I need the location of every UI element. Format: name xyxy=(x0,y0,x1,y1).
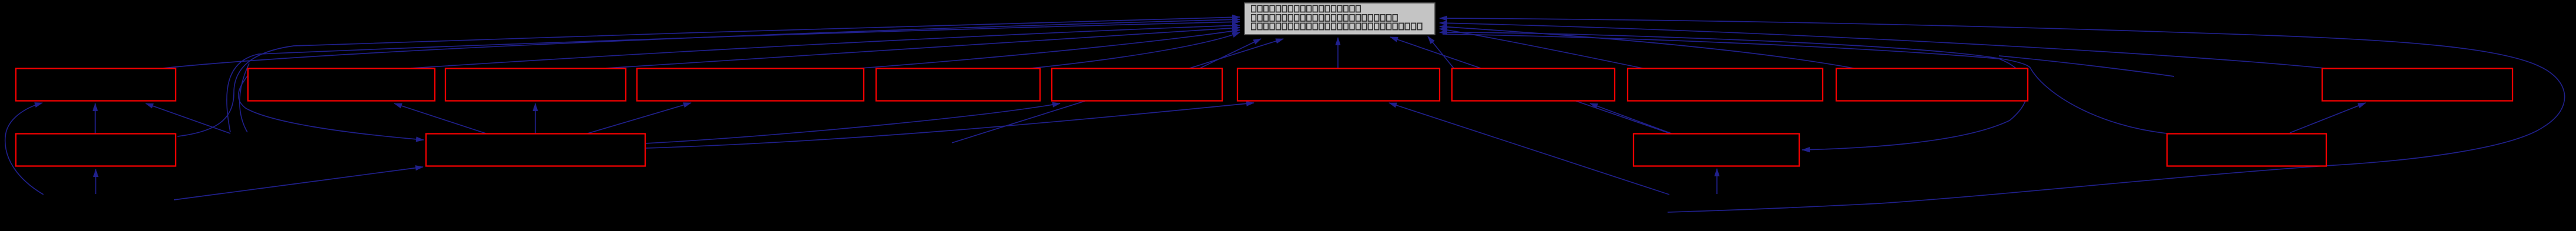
central node (grey, selected) xyxy=(1245,3,1435,35)
node row2a (red) xyxy=(16,134,176,166)
edge box10 to node xyxy=(1440,26,1857,69)
node box2 (red) xyxy=(248,69,435,101)
edge hook to node (knot stroke) xyxy=(227,22,1240,132)
edge row2b to box2 xyxy=(394,103,488,134)
node box10 (red) xyxy=(1836,69,2028,101)
edge row2c to box8 xyxy=(1590,103,1673,134)
edge invisible to box7 xyxy=(1389,103,1669,195)
node box3 (red) xyxy=(445,69,626,101)
edge box5 to node xyxy=(1026,32,1240,69)
edge curve to row2b upper-left xyxy=(239,68,424,140)
edge row2d to box11 xyxy=(2290,103,2366,133)
edge invisible to box1 (diag) xyxy=(146,103,230,133)
edge box3 to node xyxy=(606,28,1240,68)
edge far-left diag to node bottom xyxy=(952,39,1283,143)
edge far invisible to row2b lower-left xyxy=(174,167,423,200)
edge box8 to node corner xyxy=(1428,36,1454,68)
central node missing-glyph text (3 lines of tofu boxes) xyxy=(1252,5,1422,29)
edge bottom invisible around right to node xyxy=(1440,18,2565,212)
node box11 (red) xyxy=(2322,69,2513,101)
edge knot stroke to invisible row2 node xyxy=(240,63,249,132)
edge box4 to node xyxy=(853,30,1240,69)
edge box1 to node xyxy=(163,19,1240,68)
node box9 (red) xyxy=(1628,69,1823,101)
edge bundle to row2c right edge xyxy=(1443,34,2028,150)
edge invisible to row2a xyxy=(95,169,96,194)
node box8 (red) xyxy=(1452,69,1615,101)
edge box9 to node xyxy=(1440,29,1645,69)
edge invisible to row2c xyxy=(1716,169,1718,194)
edge box2 to node xyxy=(411,25,1240,68)
node box1 (red) xyxy=(16,69,176,101)
node row2c (red) xyxy=(1634,134,1799,166)
edge row2b to box7 xyxy=(645,103,1254,148)
edge row2b to box4 xyxy=(588,103,691,133)
node box7 (red) xyxy=(1237,69,1440,101)
edge box11 to node xyxy=(1440,23,2330,69)
node box6 (red) xyxy=(1052,69,1222,101)
node box5 (red) xyxy=(876,69,1040,101)
edge box7 to node xyxy=(1337,38,1339,69)
edge row2a to box1 xyxy=(95,103,96,133)
edge row2b to box6 xyxy=(645,103,1060,143)
node row2d (red) xyxy=(2167,134,2326,166)
node box4 (red) xyxy=(637,69,864,101)
edge box6 to node xyxy=(1199,39,1261,69)
node row2b (red) xyxy=(426,134,645,166)
edge bundle to invisible row1 node xyxy=(1999,56,2174,76)
edge row2a to node (hook) xyxy=(177,17,1240,136)
edge invisible C-curve to box1 xyxy=(5,103,43,195)
edge row2d to node (hook right) xyxy=(1440,32,2167,133)
edge row2b to box3 xyxy=(535,103,536,134)
edge row2c to node bottom xyxy=(1390,37,1672,134)
